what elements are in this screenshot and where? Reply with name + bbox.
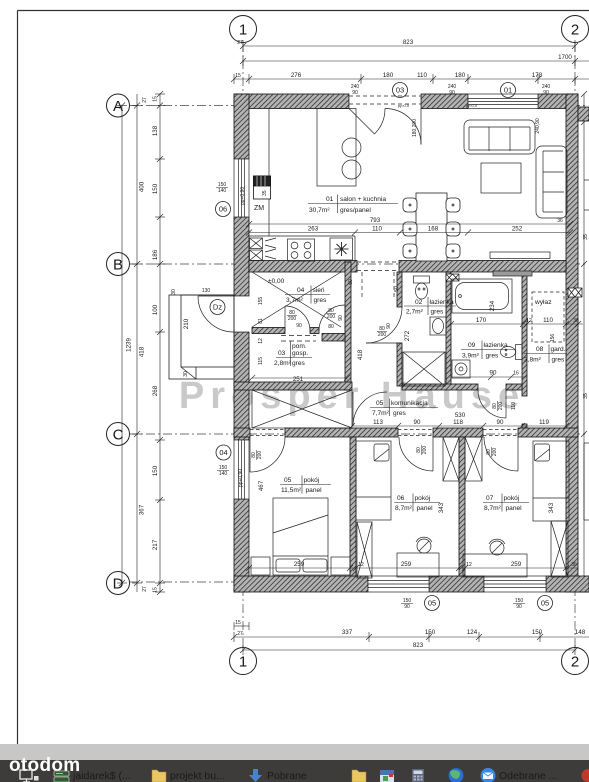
svg-text:01: 01 — [504, 86, 512, 95]
wall C segment 2 — [285, 428, 398, 437]
svg-text:12: 12 — [258, 338, 264, 344]
svg-text:180,200: 180,200 — [412, 119, 418, 137]
grid bubble 1 bottom — [230, 648, 257, 675]
svg-text:3,9m²: 3,9m² — [462, 353, 480, 360]
door sien-gosp arc — [285, 306, 310, 331]
svg-text:03: 03 — [396, 86, 404, 95]
top dimension line 1700 — [243, 60, 589, 62]
wall bottom segment 2 — [429, 576, 484, 592]
svg-text:90: 90 — [543, 90, 549, 96]
svg-text:wyłaz: wyłaz — [534, 299, 552, 306]
svg-text:418: 418 — [139, 346, 146, 357]
svg-text:05: 05 — [376, 400, 384, 407]
svg-text:150: 150 — [152, 465, 159, 476]
svg-text:09: 09 — [468, 342, 476, 349]
svg-text:salon + kuchnia: salon + kuchnia — [340, 196, 386, 203]
svg-text:łazienka: łazienka — [430, 299, 455, 306]
svg-text:110: 110 — [543, 317, 553, 324]
svg-text:276: 276 — [291, 72, 302, 79]
taskbar icon monitor — [20, 770, 32, 782]
room 03 label — [274, 341, 312, 367]
grid line C — [129, 433, 585, 435]
svg-text:200: 200 — [422, 446, 428, 455]
svg-text:200: 200 — [498, 402, 504, 411]
svg-text:100: 100 — [152, 304, 159, 315]
svg-text:90: 90 — [352, 90, 358, 96]
sofa top — [464, 120, 535, 154]
svg-text:pokój: pokój — [304, 477, 320, 484]
svg-text:11,5m²: 11,5m² — [281, 487, 302, 494]
svg-text:90: 90 — [296, 323, 302, 329]
room 01 label — [308, 195, 398, 215]
svg-text:110: 110 — [417, 72, 427, 79]
svg-text:36: 36 — [573, 318, 579, 324]
svg-text:80: 80 — [328, 324, 334, 330]
svg-text:150: 150 — [425, 629, 436, 636]
svg-text:2,7m²: 2,7m² — [406, 309, 424, 316]
grid line 1 — [129, 43, 585, 648]
svg-text:50: 50 — [394, 286, 400, 292]
svg-text:pom.: pom. — [292, 343, 307, 350]
svg-text:200: 200 — [327, 314, 336, 320]
door room05 arc — [250, 437, 285, 472]
svg-text:252: 252 — [512, 226, 523, 233]
wardrobe room07 a — [465, 437, 482, 481]
svg-text:Pobrane: Pobrane — [267, 770, 307, 782]
washbasin bath02 — [430, 317, 446, 335]
svg-text:259: 259 — [294, 561, 305, 568]
svg-text:1700: 1700 — [558, 54, 572, 61]
svg-text:823: 823 — [403, 39, 414, 46]
svg-text:2,8m²: 2,8m² — [274, 360, 292, 367]
svg-text:90: 90 — [386, 323, 392, 329]
svg-text:138: 138 — [152, 125, 159, 136]
window size labels — [216, 84, 550, 610]
taskbar icon mail — [481, 768, 496, 782]
wall corridor north — [402, 384, 478, 390]
svg-text:±0,00: ±0,00 — [268, 278, 285, 285]
svg-text:pp:0,0: pp:0,0 — [398, 103, 410, 108]
svg-text:15: 15 — [235, 73, 241, 79]
svg-text:217: 217 — [152, 539, 159, 550]
svg-text:156: 156 — [550, 334, 556, 343]
svg-text:150: 150 — [532, 629, 543, 636]
svg-text:110: 110 — [372, 226, 382, 233]
svg-text:210: 210 — [183, 318, 190, 329]
svg-text:1: 1 — [239, 22, 247, 39]
dining chairs — [403, 198, 460, 258]
wall room05/06 — [350, 437, 356, 576]
top dimension line 823 — [231, 40, 589, 84]
grid bubble A — [107, 94, 130, 117]
svg-text:04: 04 — [219, 448, 227, 457]
wall top segment mid — [421, 94, 468, 109]
kitchen stove — [288, 239, 315, 261]
entry door leaves — [349, 109, 375, 135]
tv console — [490, 252, 550, 276]
wall B segment right — [399, 261, 566, 273]
svg-text:200: 200 — [492, 448, 498, 457]
svg-text:1239: 1239 — [126, 338, 133, 352]
svg-text:15: 15 — [153, 587, 159, 593]
svg-text:27: 27 — [142, 586, 148, 592]
svg-text:pokój: pokój — [504, 495, 520, 502]
wall corridor/bath02 lower — [397, 343, 402, 386]
boiler ZM — [254, 176, 271, 199]
svg-text:02: 02 — [415, 299, 423, 306]
window labels circled — [210, 83, 553, 611]
interior dim gosp03 — [249, 375, 350, 381]
svg-text:36: 36 — [571, 562, 577, 568]
svg-text:150: 150 — [152, 183, 159, 194]
door room06 arc — [399, 437, 433, 471]
svg-text:Odebrane ...: Odebrane ... — [499, 770, 557, 782]
room 07 label — [483, 494, 529, 513]
svg-text:35: 35 — [583, 234, 589, 240]
sien cross mark — [252, 272, 341, 327]
wall corridor/bath02 upper — [397, 272, 402, 307]
svg-text:170: 170 — [476, 317, 487, 324]
right dimension line — [581, 91, 587, 592]
bed room05 — [251, 498, 350, 575]
svg-text:90: 90 — [490, 370, 497, 377]
taskbar icon grid — [412, 769, 424, 782]
wall B segment left — [249, 261, 357, 273]
wall C segment 4 — [518, 428, 578, 437]
svg-text:118: 118 — [453, 419, 463, 426]
svg-text:27: 27 — [142, 97, 148, 103]
svg-text:1: 1 — [239, 654, 247, 671]
wall left segment 3 — [234, 332, 249, 440]
toilet bath09 — [501, 345, 523, 360]
bottom dimension line 823 — [243, 649, 575, 651]
svg-text:823: 823 — [413, 642, 424, 649]
wall bath09/gard08 — [522, 272, 527, 396]
svg-text:A: A — [113, 98, 123, 115]
svg-text:12: 12 — [526, 318, 532, 324]
svg-text:90: 90 — [414, 419, 421, 426]
exterior walls — [234, 94, 589, 592]
svg-text:35: 35 — [583, 393, 589, 399]
svg-text:gres: gres — [431, 309, 445, 316]
svg-text:27: 27 — [237, 631, 243, 637]
svg-text:projekt bu...: projekt bu... — [170, 770, 225, 782]
svg-text:15: 15 — [235, 620, 241, 626]
svg-text:119: 119 — [539, 419, 549, 426]
svg-text:90: 90 — [449, 90, 455, 96]
svg-text:gosp.: gosp. — [292, 350, 308, 357]
window 06 left wall — [234, 159, 249, 217]
svg-text:90: 90 — [338, 315, 344, 321]
svg-text:36: 36 — [557, 218, 563, 224]
room 06 label — [394, 494, 440, 513]
svg-text:8,7m²: 8,7m² — [395, 505, 413, 512]
door size labels — [251, 308, 504, 460]
wall stub bottom-right — [578, 578, 589, 592]
entry door opening 03 top wall — [349, 94, 421, 145]
wall left segment 1 — [234, 94, 249, 159]
wall left segment 4 — [234, 499, 249, 592]
svg-text:240,90: 240,90 — [535, 118, 541, 134]
svg-text:panel: panel — [306, 487, 323, 494]
door corridor-09 arc — [478, 390, 506, 418]
kitchen cabinets left — [250, 238, 277, 261]
room 05 label — [280, 476, 331, 495]
svg-text:259: 259 — [511, 561, 522, 568]
porch outside — [169, 295, 234, 379]
room 09 label — [461, 341, 515, 360]
wall top segment right — [538, 94, 578, 109]
svg-text:05: 05 — [541, 599, 549, 608]
svg-text:530: 530 — [455, 412, 466, 419]
svg-text:panel: panel — [506, 505, 523, 512]
grid bubble B — [107, 253, 130, 276]
interior dim chain corridor — [349, 423, 569, 429]
svg-text:05: 05 — [284, 477, 292, 484]
taskbar — [0, 744, 589, 760]
svg-text:pp+0,90: pp+0,90 — [238, 469, 244, 487]
svg-text:panel: panel — [417, 505, 434, 512]
svg-text:sień: sień — [313, 287, 325, 294]
svg-text:90: 90 — [516, 604, 522, 610]
rotated interior dims — [171, 279, 556, 513]
wall stub top-right — [578, 107, 589, 121]
grid bubble 1 top — [107, 16, 589, 675]
kitchen island — [317, 109, 356, 187]
wall C segment 1 — [234, 428, 250, 437]
svg-text:gres: gres — [552, 357, 566, 364]
svg-text:2: 2 — [571, 22, 579, 39]
svg-text:pp+0,90: pp+0,90 — [240, 187, 246, 205]
svg-text:124: 124 — [467, 629, 478, 636]
svg-text:16: 16 — [513, 371, 519, 377]
left dimension line 1239 — [117, 91, 165, 595]
wardrobe room06 b — [443, 437, 482, 481]
kitchen sink bowls — [342, 138, 361, 157]
svg-text:140: 140 — [219, 471, 228, 477]
wall sien/gosp03 left — [252, 328, 285, 334]
svg-text:jaidarek$ (...: jaidarek$ (... — [72, 770, 131, 782]
svg-text:pp:0,0: pp:0,0 — [466, 103, 478, 108]
svg-text:180: 180 — [383, 72, 394, 79]
svg-text:B: B — [113, 257, 123, 274]
svg-text:263: 263 — [308, 226, 319, 233]
neighbour bed fragment right — [584, 180, 589, 520]
svg-text:148: 148 — [575, 629, 586, 636]
cabinet gosp03 — [322, 334, 345, 342]
svg-text:418: 418 — [357, 349, 364, 360]
svg-text:272: 272 — [404, 330, 411, 341]
svg-text:200: 200 — [378, 332, 387, 338]
svg-text:06: 06 — [219, 205, 227, 214]
svg-text:268: 268 — [152, 385, 159, 396]
washing machine bath09 — [452, 360, 470, 378]
interior dim chain bath09 — [448, 321, 583, 380]
bottom dimension chain — [231, 622, 589, 655]
svg-text:07: 07 — [486, 495, 494, 502]
wardrobe room06 — [357, 522, 372, 578]
taskbar icon red partial — [582, 769, 589, 782]
svg-text:155: 155 — [258, 297, 264, 306]
stairs box — [252, 390, 352, 428]
grid line D — [129, 581, 585, 583]
svg-text:04: 04 — [297, 287, 305, 294]
wall room06/07 — [459, 437, 465, 576]
svg-text:90: 90 — [497, 419, 504, 426]
svg-text:367: 367 — [139, 504, 146, 515]
svg-text:pokój: pokój — [415, 495, 431, 502]
svg-text:06: 06 — [397, 495, 405, 502]
wall left segment 2 — [234, 217, 249, 296]
svg-text:05: 05 — [428, 599, 436, 608]
interior dim chain salon — [246, 221, 573, 236]
room 08 label — [524, 345, 567, 364]
svg-text:200: 200 — [257, 451, 263, 460]
svg-text:337: 337 — [342, 629, 353, 636]
svg-text:3,8m²: 3,8m² — [524, 357, 542, 364]
wall bottom segment 1 — [234, 576, 368, 592]
taskbar icon server green — [54, 771, 69, 782]
svg-text:ZM: ZM — [254, 205, 264, 212]
svg-text:168: 168 — [428, 226, 439, 233]
wall bath02/bath09 — [446, 272, 451, 386]
shower bath02 — [403, 352, 445, 386]
nightstands room05 — [251, 557, 270, 575]
corridor label — [370, 399, 438, 418]
svg-text:140: 140 — [218, 188, 227, 194]
vent grille right wall — [568, 288, 582, 297]
svg-text:2: 2 — [571, 654, 579, 671]
grid line 2 — [574, 43, 576, 648]
attic hatch wyaz dashed — [532, 292, 564, 342]
svg-text:343: 343 — [438, 502, 445, 513]
bathtub bath09 — [452, 279, 512, 313]
svg-text:467: 467 — [258, 480, 265, 491]
wall sien/gosp03 mid — [310, 328, 319, 334]
room 02 label — [404, 297, 456, 316]
passage salon-sien — [357, 262, 399, 300]
svg-text:81: 81 — [258, 318, 264, 324]
svg-text:27: 27 — [237, 40, 243, 46]
svg-text:30,7m²: 30,7m² — [309, 207, 330, 214]
wall right — [566, 94, 578, 592]
svg-text:12: 12 — [358, 562, 364, 568]
svg-text:178: 178 — [532, 72, 543, 79]
svg-text:343: 343 — [548, 502, 555, 513]
svg-text:gard.: gard. — [551, 346, 566, 353]
taskbar icon picture — [380, 770, 394, 782]
door opening dashes C wall — [250, 430, 518, 436]
svg-text:gres: gres — [292, 360, 306, 367]
interior dim chain bedrooms — [246, 565, 578, 571]
door stairs arc — [353, 392, 387, 426]
svg-text:60: 60 — [348, 279, 354, 285]
taskbar icon globe — [449, 768, 464, 782]
window 05b bottom wall — [484, 576, 546, 592]
svg-text:130: 130 — [202, 288, 211, 294]
window 04 left wall — [234, 440, 249, 499]
bed room06 — [356, 441, 391, 520]
svg-text:15: 15 — [153, 96, 159, 102]
dining table — [416, 193, 447, 261]
svg-text:400: 400 — [139, 181, 146, 192]
left dimension chain — [159, 94, 161, 592]
svg-text:186: 186 — [152, 249, 159, 260]
svg-text:komunikacja: komunikacja — [391, 400, 428, 407]
svg-text:251: 251 — [293, 376, 304, 383]
svg-text:gres: gres — [486, 353, 500, 360]
grid bubble C — [107, 423, 130, 446]
svg-text:08: 08 — [536, 346, 544, 353]
grid bubble 2 top — [562, 16, 589, 43]
desk room07 — [463, 539, 527, 577]
svg-text:Dz: Dz — [213, 303, 222, 312]
window 01 top wall — [468, 94, 538, 109]
svg-text:03: 03 — [278, 350, 286, 357]
wall top segment left — [234, 94, 349, 109]
exterior door Dz left wall — [198, 296, 249, 332]
rug — [481, 163, 521, 193]
otodom logo — [9, 755, 80, 777]
svg-text:7,7m²: 7,7m² — [372, 410, 390, 417]
gosp03 door opening dashes — [281, 336, 316, 342]
desk room06 — [397, 537, 439, 577]
svg-text:793: 793 — [370, 217, 381, 224]
grid line A — [129, 105, 585, 107]
svg-text:3,7m²: 3,7m² — [286, 297, 304, 304]
chaise sofa right — [536, 146, 567, 218]
svg-text:115: 115 — [258, 357, 264, 365]
kitchen sink unit — [330, 238, 353, 260]
svg-text:110: 110 — [511, 402, 517, 410]
kitchen counter line — [249, 109, 361, 263]
door sien-corridor arc — [319, 305, 345, 331]
grid bubble D — [107, 572, 130, 595]
svg-text:30: 30 — [171, 289, 177, 295]
taskbar folder projekt — [152, 770, 166, 782]
vent grille bath09 — [446, 274, 459, 281]
svg-text:30: 30 — [183, 371, 189, 377]
svg-text:259: 259 — [401, 561, 412, 568]
grid line B — [129, 263, 585, 265]
svg-text:35: 35 — [262, 190, 268, 196]
svg-text:łazienka: łazienka — [484, 342, 509, 349]
svg-text:180: 180 — [455, 72, 466, 79]
svg-text:234: 234 — [489, 300, 496, 311]
wall bottom segment 3 — [546, 576, 589, 592]
svg-text:113: 113 — [373, 419, 383, 426]
svg-text:01: 01 — [326, 196, 334, 203]
toilet bath02 — [414, 276, 430, 299]
interior door 02 arc — [250, 305, 518, 472]
svg-text:gres: gres — [393, 410, 407, 417]
taskbar download arrow — [249, 769, 262, 782]
svg-text:gres/panel: gres/panel — [340, 207, 371, 214]
wall gosp03 bottom — [234, 382, 352, 390]
svg-text:12: 12 — [466, 562, 472, 568]
svg-text:90: 90 — [404, 604, 410, 610]
svg-text:200: 200 — [288, 316, 297, 322]
svg-text:8,7m²: 8,7m² — [484, 505, 502, 512]
grid bubble 2 bottom — [562, 648, 589, 675]
taskbar folder 2 — [352, 770, 366, 782]
wardrobe room07 b — [551, 521, 568, 577]
room 04 label — [285, 286, 330, 305]
wall C segment 3 — [433, 428, 483, 437]
top dimension chain — [234, 78, 589, 80]
svg-text:gres: gres — [314, 297, 328, 304]
bed room07 — [533, 441, 569, 521]
